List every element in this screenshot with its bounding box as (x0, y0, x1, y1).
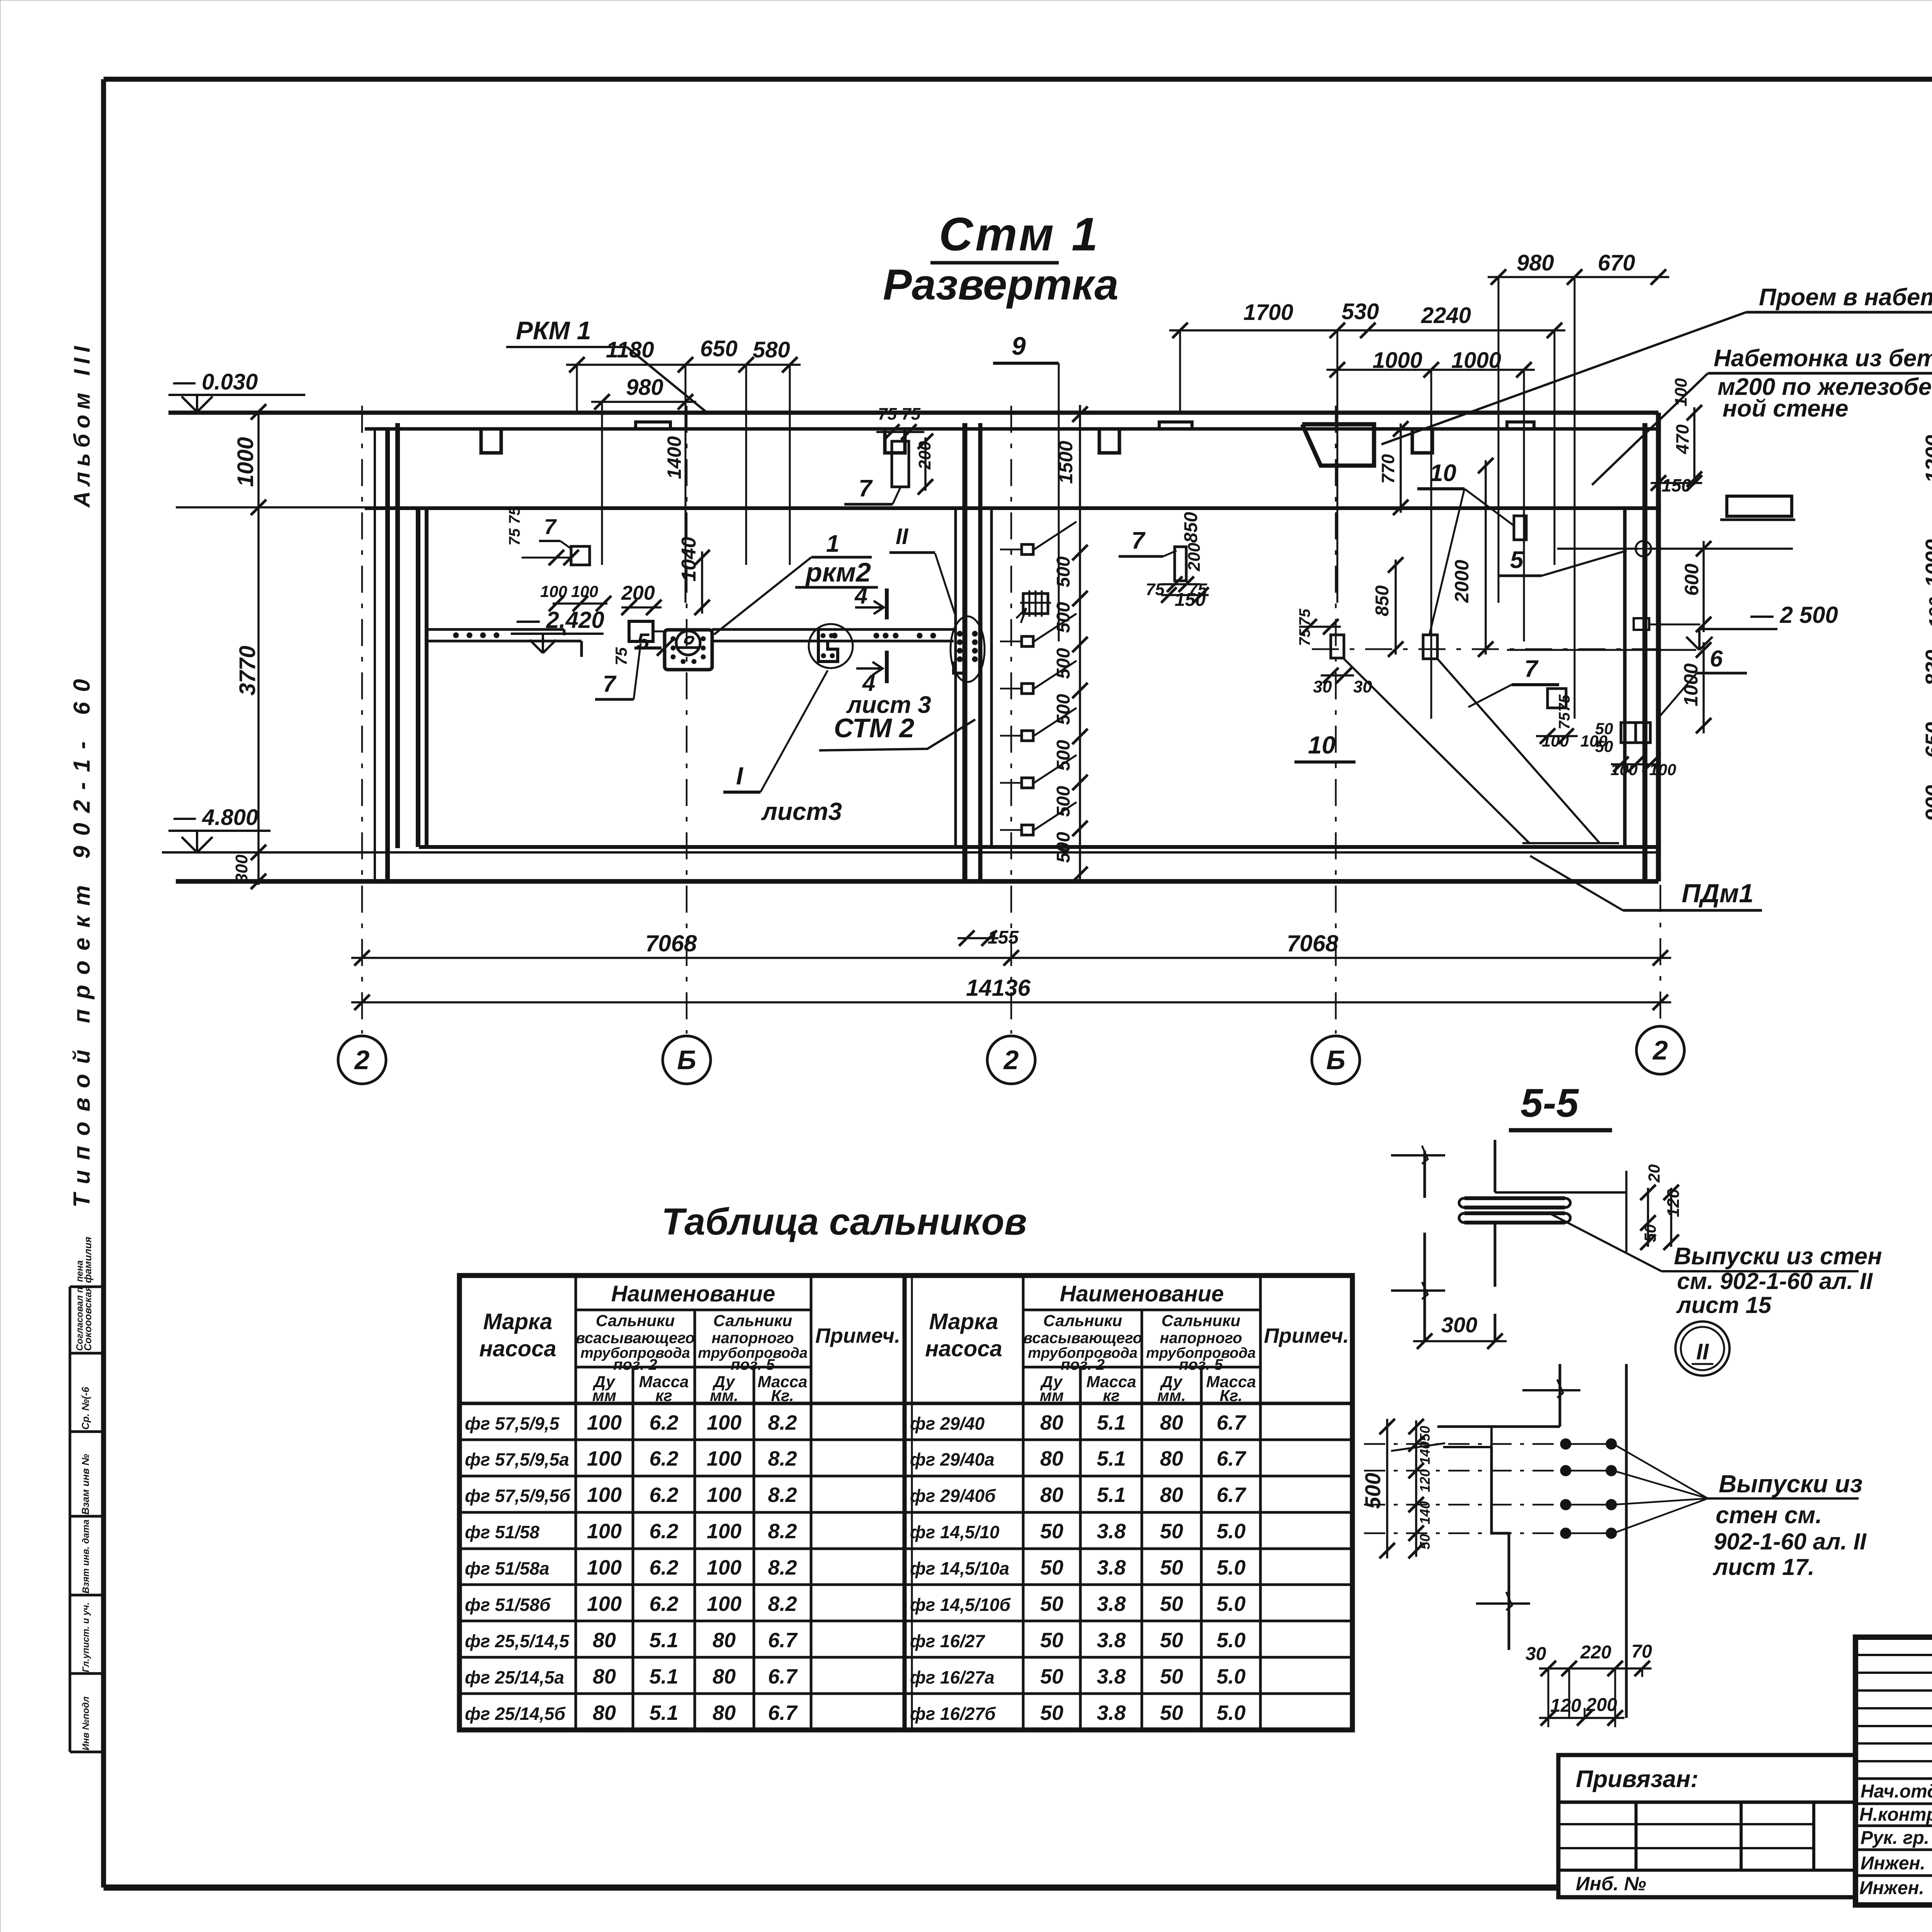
проем opening trapezoid in набетонка band (1302, 424, 1374, 466)
svg-text:кг: кг (1103, 1386, 1120, 1405)
svg-text:80: 80 (593, 1665, 616, 1688)
svg-text:50: 50 (1160, 1665, 1183, 1688)
svg-text:20: 20 (1645, 1164, 1663, 1183)
bottom dim row 14136 (351, 1001, 1671, 1003)
svg-text:Марка: Марка (483, 1309, 552, 1334)
floating rectangle right (проем marker) (1727, 496, 1792, 516)
5-5 top line right (1495, 1191, 1626, 1194)
svg-text:650: 650 (1921, 722, 1932, 758)
svg-text:75: 75 (1556, 694, 1573, 712)
axis dash-dot verticals left drawing (361, 406, 363, 1034)
axis circle Б left (663, 1036, 711, 1084)
plate G lower right with dims (1548, 689, 1566, 708)
svg-text:1000: 1000 (1451, 348, 1501, 373)
svg-text:100: 100 (707, 1447, 742, 1470)
svg-text:1180: 1180 (606, 337, 654, 362)
svg-text:650: 650 (700, 336, 738, 361)
table column lines (1022, 1276, 1025, 1730)
svg-text:770: 770 (1378, 454, 1398, 484)
svg-text:500: 500 (1053, 556, 1074, 587)
svg-text:Сальники: Сальники (596, 1311, 675, 1330)
svg-text:50: 50 (1595, 737, 1613, 755)
svg-text:200: 200 (621, 582, 655, 604)
svg-text:поз. 2: поз. 2 (1061, 1356, 1105, 1373)
svg-text:5.0: 5.0 (1216, 1665, 1245, 1688)
plate D vertical (under slab right bay) (1514, 516, 1526, 540)
svg-text:Ср. №(-6: Ср. №(-6 (80, 1387, 91, 1430)
floor lines (419, 845, 1658, 849)
II detail leaders to label (1613, 1444, 1708, 1498)
svg-text:830: 830 (1921, 650, 1932, 686)
svg-text:5.1: 5.1 (649, 1701, 678, 1725)
svg-text:500: 500 (1053, 832, 1074, 863)
svg-text:Инб. №: Инб. № (1576, 1873, 1646, 1895)
svg-text:— 4.800: — 4.800 (173, 805, 258, 830)
svg-text:75: 75 (612, 647, 630, 665)
svg-text:50: 50 (1160, 1701, 1183, 1725)
svg-text:1200: 1200 (1921, 435, 1932, 483)
svg-text:8.2: 8.2 (768, 1447, 797, 1470)
svg-text:5.0: 5.0 (1216, 1520, 1245, 1543)
svg-text:30: 30 (1353, 677, 1372, 696)
svg-text:50: 50 (1595, 719, 1613, 738)
table header lines (1023, 1309, 1260, 1311)
svg-text:50: 50 (1040, 1665, 1063, 1688)
svg-text:5.0: 5.0 (1216, 1592, 1245, 1616)
svg-text:Инжен.: Инжен. (1861, 1853, 1925, 1874)
svg-text:100: 100 (587, 1592, 622, 1616)
svg-text:7068: 7068 (1287, 930, 1338, 956)
svg-text:50: 50 (1160, 1556, 1183, 1579)
detail circle II (double) (1675, 1321, 1730, 1376)
svg-text:всасывающего: всасывающего (1023, 1330, 1142, 1347)
II detail dash-dot rows (1364, 1443, 1560, 1445)
svg-text:Выпуски из: Выпуски из (1719, 1470, 1862, 1498)
svg-text:фг 57,5/9,5б: фг 57,5/9,5б (465, 1486, 571, 1506)
svg-text:120: 120 (1417, 1469, 1433, 1492)
svg-text:500: 500 (1053, 786, 1074, 817)
svg-text:80: 80 (713, 1629, 736, 1652)
svg-text:поз. 5: поз. 5 (731, 1356, 775, 1373)
svg-text:150: 150 (1662, 475, 1691, 495)
svg-text:5.0: 5.0 (1216, 1701, 1245, 1725)
svg-text:Кг.: Кг. (771, 1386, 794, 1405)
svg-text:1500: 1500 (1055, 441, 1077, 484)
pipe run right segment to mid wall (712, 628, 954, 631)
long diagonals from row plates (1344, 659, 1529, 843)
svg-text:1400: 1400 (663, 436, 685, 479)
top dimension row 1180-650-580 (566, 364, 801, 366)
svg-text:80: 80 (1040, 1483, 1063, 1507)
svg-text:140: 140 (1417, 1441, 1433, 1464)
svg-text:Набетонка из бетона: Набетонка из бетона (1714, 345, 1932, 372)
svg-text:фг 29/40: фг 29/40 (910, 1413, 985, 1434)
svg-text:фг 14,5/10а: фг 14,5/10а (910, 1558, 1009, 1578)
svg-text:6.2: 6.2 (649, 1556, 678, 1579)
hatched plate top of ladder (1023, 594, 1048, 614)
title block row lines signature area (1855, 1777, 1932, 1780)
svg-text:7: 7 (1524, 656, 1539, 682)
table outer frame (459, 1276, 1352, 1730)
svg-text:80: 80 (1160, 1483, 1183, 1507)
svg-text:Н.контр.: Н.контр. (1859, 1804, 1932, 1825)
svg-text:8.2: 8.2 (768, 1520, 797, 1543)
svg-text:3.8: 3.8 (1097, 1665, 1126, 1688)
svg-text:мм.: мм. (1157, 1386, 1186, 1405)
svg-text:3.8: 3.8 (1097, 1629, 1126, 1652)
svg-text:10: 10 (1308, 731, 1335, 759)
svg-text:лист 15: лист 15 (1676, 1292, 1772, 1318)
svg-text:кг: кг (655, 1386, 672, 1405)
II detail corner wall verticals (1559, 1364, 1561, 1427)
svg-text:6.2: 6.2 (649, 1483, 678, 1507)
svg-text:мм: мм (1040, 1386, 1064, 1405)
svg-text:5.1: 5.1 (649, 1665, 678, 1688)
svg-text:поз. 5: поз. 5 (1179, 1356, 1223, 1373)
svg-text:75 75: 75 75 (506, 507, 523, 546)
svg-text:— 2.420: — 2.420 (516, 607, 604, 633)
svg-text:фг 16/27б: фг 16/27б (910, 1704, 996, 1724)
svg-text:фг 16/27: фг 16/27 (910, 1631, 986, 1651)
table data rows (459, 1439, 905, 1441)
left bay inner wall face (416, 509, 420, 847)
svg-text:900: 900 (1921, 785, 1932, 821)
svg-text:7: 7 (1131, 527, 1146, 554)
svg-text:Стм 1: Стм 1 (939, 208, 1100, 260)
svg-text:200: 200 (1185, 543, 1204, 571)
bottom dim row 7068 7068 (351, 957, 1671, 959)
page frame border (104, 77, 1932, 82)
plate H double lower right with 50 100 dims (1621, 723, 1650, 743)
svg-text:10: 10 (1430, 460, 1456, 486)
svg-text:30: 30 (1526, 1644, 1546, 1664)
svg-text:фг 14,5/10б: фг 14,5/10б (910, 1595, 1011, 1615)
svg-text:Проем в набетонке: Проем в набетонке (1759, 284, 1932, 311)
svg-text:Нач.отд.: Нач.отд. (1861, 1781, 1932, 1802)
svg-text:3.8: 3.8 (1097, 1556, 1126, 1579)
svg-text:РКМ 1: РКМ 1 (516, 316, 591, 345)
svg-text:СТМ 2: СТМ 2 (834, 713, 914, 743)
II detail left dim chain 50 140 120 140 50 and 500 (1415, 1420, 1417, 1557)
svg-text:6.7: 6.7 (1216, 1447, 1247, 1470)
svg-text:1700: 1700 (1243, 300, 1293, 325)
svg-text:75 75: 75 75 (878, 405, 921, 423)
upper wall band line y=1313 (176, 506, 1658, 509)
top dimension row 1700-530-2240 (1169, 329, 1565, 332)
margin stamp boxes (69, 1287, 71, 1752)
svg-text:8.2: 8.2 (768, 1556, 797, 1579)
svg-text:980: 980 (626, 375, 663, 400)
svg-text:50: 50 (1417, 1426, 1433, 1441)
svg-text:Наименование: Наименование (611, 1281, 775, 1306)
svg-text:лист 17.: лист 17. (1713, 1554, 1815, 1580)
svg-text:850: 850 (1181, 512, 1201, 543)
svg-text:Кг.: Кг. (1219, 1386, 1242, 1405)
plates row on dash-dot 1680 (1312, 648, 1658, 650)
privyazan grid (1558, 1801, 1855, 1804)
svg-text:500: 500 (1053, 740, 1074, 771)
svg-text:фг 16/27а: фг 16/27а (910, 1667, 995, 1687)
svg-text:всасывающего: всасывающего (576, 1330, 695, 1347)
svg-text:3770: 3770 (235, 646, 260, 696)
ladder plates (1022, 544, 1033, 554)
pump anchor block on axis Б (665, 630, 712, 670)
svg-text:50: 50 (1160, 1520, 1183, 1543)
svg-text:50: 50 (1040, 1629, 1063, 1652)
svg-text:1000: 1000 (1680, 663, 1702, 706)
svg-text:50: 50 (1040, 1556, 1063, 1579)
anchor plate group A (left bay upper) (571, 546, 590, 565)
svg-text:Марка: Марка (929, 1309, 998, 1334)
svg-text:Согласовал п. пена: Согласовал п. пена (75, 1260, 85, 1351)
ground level line left drawing (168, 411, 1658, 415)
svg-text:Наименование: Наименование (1060, 1281, 1224, 1306)
svg-text:100: 100 (707, 1520, 742, 1543)
svg-text:6.7: 6.7 (768, 1629, 798, 1652)
svg-text:8.2: 8.2 (768, 1483, 797, 1507)
svg-text:80: 80 (593, 1701, 616, 1725)
svg-text:7: 7 (544, 514, 557, 539)
axis circle 2 left (338, 1036, 386, 1084)
svg-text:100: 100 (707, 1411, 742, 1434)
svg-text:300: 300 (232, 854, 251, 883)
svg-text:80: 80 (1160, 1411, 1183, 1434)
svg-text:140: 140 (1417, 1501, 1433, 1524)
svg-text:Типовой проект 902-1- 60: Типовой проект 902-1- 60 (69, 669, 95, 1207)
svg-text:Взам инв №: Взам инв № (80, 1454, 91, 1515)
svg-text:5.0: 5.0 (1216, 1629, 1245, 1652)
svg-text:190: 190 (1926, 597, 1932, 628)
svg-text:1000: 1000 (233, 437, 258, 487)
table column lines (575, 1276, 577, 1730)
svg-text:5: 5 (1510, 547, 1524, 573)
svg-text:100: 100 (587, 1411, 622, 1434)
svg-text:поз. 2: поз. 2 (613, 1356, 657, 1373)
svg-text:1000: 1000 (1921, 539, 1932, 587)
svg-text:фг 29/40б: фг 29/40б (910, 1486, 996, 1506)
svg-text:6.2: 6.2 (649, 1520, 678, 1543)
svg-text:300: 300 (1441, 1313, 1477, 1337)
svg-text:насоса: насоса (925, 1336, 1002, 1361)
top dimension row 980-670 (1488, 276, 1669, 278)
title block upper-left empty grid rows (1855, 1654, 1932, 1656)
svg-text:902-1-60 ал. II: 902-1-60 ал. II (1714, 1529, 1867, 1554)
svg-text:470: 470 (1672, 424, 1692, 454)
svg-text:100: 100 (1542, 732, 1569, 750)
svg-text:220: 220 (1580, 1642, 1611, 1663)
svg-text:1: 1 (826, 531, 839, 557)
svg-text:Таблица сальников: Таблица сальников (662, 1201, 1027, 1243)
svg-text:фг 14,5/10: фг 14,5/10 (910, 1522, 1000, 1542)
top dimension row 1000-1000 (1327, 369, 1535, 371)
svg-text:Привязан:: Привязан: (1576, 1766, 1699, 1793)
svg-text:6.7: 6.7 (768, 1701, 798, 1725)
svg-text:7068: 7068 (645, 930, 697, 956)
svg-text:Сальники: Сальники (713, 1311, 792, 1330)
svg-text:2240: 2240 (1421, 303, 1471, 328)
svg-text:7: 7 (859, 475, 873, 502)
detail circle I on pipe run (809, 624, 853, 668)
svg-text:5-5: 5-5 (1520, 1081, 1579, 1126)
svg-text:80: 80 (1160, 1447, 1183, 1470)
ladder dim line with 500 labels (1079, 405, 1081, 884)
svg-text:4: 4 (854, 583, 867, 609)
svg-text:600: 600 (1681, 563, 1702, 596)
svg-text:мм: мм (592, 1386, 616, 1405)
svg-text:фг 51/58: фг 51/58 (465, 1522, 540, 1542)
svg-text:80: 80 (1040, 1447, 1063, 1470)
svg-text:ной стене: ной стене (1723, 395, 1849, 422)
svg-text:3.8: 3.8 (1097, 1520, 1126, 1543)
svg-text:II: II (1696, 1339, 1709, 1364)
svg-text:3.8: 3.8 (1097, 1592, 1126, 1616)
left vertical dim 1000/3770 chain (257, 412, 260, 885)
svg-text:50: 50 (1160, 1629, 1183, 1652)
svg-text:Рук. гр.: Рук. гр. (1861, 1828, 1929, 1848)
svg-text:ПДм1: ПДм1 (1682, 879, 1753, 908)
svg-text:фг 25/14,5а: фг 25/14,5а (465, 1667, 564, 1687)
svg-text:1040: 1040 (678, 537, 700, 582)
svg-text:500: 500 (1053, 602, 1074, 633)
svg-text:6.2: 6.2 (649, 1447, 678, 1470)
II detail corner shape (1437, 1425, 1560, 1428)
svg-text:см. 902-1-60 ал. II: см. 902-1-60 ал. II (1677, 1268, 1873, 1294)
svg-text:500: 500 (1361, 1473, 1385, 1509)
svg-text:50: 50 (1160, 1592, 1183, 1616)
svg-text:II: II (896, 524, 909, 549)
5-5 slot plate (stadium shapes) (1464, 1198, 1565, 1223)
svg-text:50: 50 (1040, 1701, 1063, 1725)
svg-text:100: 100 (1672, 378, 1690, 406)
svg-text:7: 7 (603, 671, 617, 697)
svg-text:6.2: 6.2 (649, 1411, 678, 1434)
svg-text:напорного: напорного (711, 1330, 794, 1347)
svg-text:8.2: 8.2 (768, 1411, 797, 1434)
svg-text:6: 6 (1710, 646, 1723, 672)
svg-text:80: 80 (713, 1665, 736, 1688)
svg-text:6.7: 6.7 (768, 1665, 798, 1688)
svg-text:Гл.упист. и уч.: Гл.упист. и уч. (81, 1602, 91, 1672)
table header lines (576, 1309, 811, 1311)
small plate at 600 dim (1634, 618, 1649, 630)
svg-text:фг 57,5/9,5: фг 57,5/9,5 (465, 1413, 560, 1434)
svg-text:насоса: насоса (479, 1336, 556, 1361)
svg-text:5.1: 5.1 (649, 1629, 678, 1652)
right wall verticals (1623, 509, 1627, 847)
svg-text:Взят инв. дата: Взят инв. дата (81, 1519, 91, 1594)
svg-text:напорного: напорного (1160, 1330, 1242, 1347)
svg-text:500: 500 (1053, 694, 1074, 725)
table mid divider double (903, 1276, 907, 1730)
svg-text:120: 120 (1664, 1189, 1683, 1217)
table data rows (905, 1439, 1352, 1441)
top dimension row 980 left (591, 401, 696, 403)
svg-text:80: 80 (713, 1701, 736, 1725)
svg-text:фг 51/58а: фг 51/58а (465, 1558, 549, 1578)
pipe run dots left (453, 633, 459, 638)
svg-text:50: 50 (1040, 1592, 1063, 1616)
svg-text:Инжен.: Инжен. (1859, 1878, 1924, 1898)
svg-text:Выпуски из стен: Выпуски из стен (1674, 1243, 1882, 1270)
svg-text:2: 2 (1003, 1045, 1019, 1075)
svg-text:— 2 500: — 2 500 (1750, 602, 1838, 628)
svg-text:14136: 14136 (966, 975, 1031, 1001)
svg-text:стен см.: стен см. (1716, 1502, 1822, 1529)
plate row right (1423, 635, 1437, 659)
svg-text:100: 100 (707, 1483, 742, 1507)
svg-text:850: 850 (1372, 585, 1393, 616)
svg-text:Б: Б (1326, 1045, 1345, 1075)
svg-text:150: 150 (1175, 590, 1206, 610)
svg-text:500: 500 (1053, 648, 1074, 679)
svg-text:100: 100 (587, 1447, 622, 1470)
svg-text:Инв №подл: Инв №подл (81, 1696, 91, 1750)
svg-text:5.0: 5.0 (1216, 1556, 1245, 1579)
svg-text:Примеч.: Примеч. (815, 1324, 900, 1347)
svg-text:I: I (736, 762, 743, 790)
plate row left with 75 75 30 30 dims (1331, 635, 1344, 658)
svg-text:5.1: 5.1 (1097, 1411, 1126, 1434)
svg-text:фг 25/14,5б: фг 25/14,5б (465, 1704, 566, 1724)
svg-text:2000: 2000 (1451, 560, 1473, 603)
svg-text:2: 2 (1652, 1035, 1668, 1065)
svg-text:530: 530 (1342, 299, 1379, 324)
svg-text:6.7: 6.7 (1216, 1411, 1247, 1434)
svg-text:Б: Б (677, 1045, 696, 1075)
5-5 wall verticals with break marks (1423, 1151, 1426, 1198)
svg-text:мм.: мм. (710, 1386, 738, 1405)
svg-text:фг 51/58б: фг 51/58б (465, 1595, 551, 1615)
svg-text:100: 100 (587, 1556, 622, 1579)
svg-text:Развертка: Развертка (883, 260, 1119, 309)
svg-text:75: 75 (1556, 712, 1573, 730)
svg-text:лист3: лист3 (761, 798, 842, 825)
svg-text:Сальники: Сальники (1043, 1311, 1122, 1330)
svg-text:фг 57,5/9,5а: фг 57,5/9,5а (465, 1449, 569, 1469)
svg-text:2: 2 (354, 1045, 370, 1075)
outer left wall verticals (374, 429, 376, 881)
svg-text:80: 80 (1040, 1411, 1063, 1434)
svg-text:100: 100 (707, 1556, 742, 1579)
svg-text:80: 80 (593, 1629, 616, 1652)
svg-text:6.7: 6.7 (1216, 1483, 1247, 1507)
svg-text:Примеч.: Примеч. (1264, 1324, 1349, 1347)
title block outer frame (1855, 1637, 1932, 1905)
svg-text:фг 25,5/14,5: фг 25,5/14,5 (465, 1631, 570, 1651)
svg-text:100: 100 (587, 1520, 622, 1543)
middle wall axis2 (954, 509, 957, 847)
svg-text:фг 29/40а: фг 29/40а (910, 1449, 995, 1469)
svg-text:9: 9 (1012, 332, 1026, 360)
svg-text:5.1: 5.1 (1097, 1483, 1126, 1507)
svg-text:1000: 1000 (1372, 348, 1422, 373)
pipe run ledge -2.420 level double line (428, 628, 564, 631)
svg-text:70: 70 (1631, 1641, 1652, 1662)
axis circle Б right (1312, 1036, 1360, 1084)
privyazan block outer (1558, 1755, 1855, 1897)
5-5 leader to label (1549, 1213, 1662, 1271)
svg-text:100: 100 (707, 1592, 742, 1616)
svg-text:Сальники: Сальники (1162, 1311, 1240, 1330)
svg-text:8.2: 8.2 (768, 1592, 797, 1616)
axis circle 2 middle (987, 1036, 1035, 1084)
svg-text:50: 50 (1417, 1534, 1433, 1549)
svg-text:3.8: 3.8 (1097, 1701, 1126, 1725)
detail oval II on mid wall (951, 616, 985, 682)
svg-text:6.2: 6.2 (649, 1592, 678, 1616)
svg-text:980: 980 (1517, 250, 1554, 276)
svg-text:5.1: 5.1 (1097, 1447, 1126, 1470)
